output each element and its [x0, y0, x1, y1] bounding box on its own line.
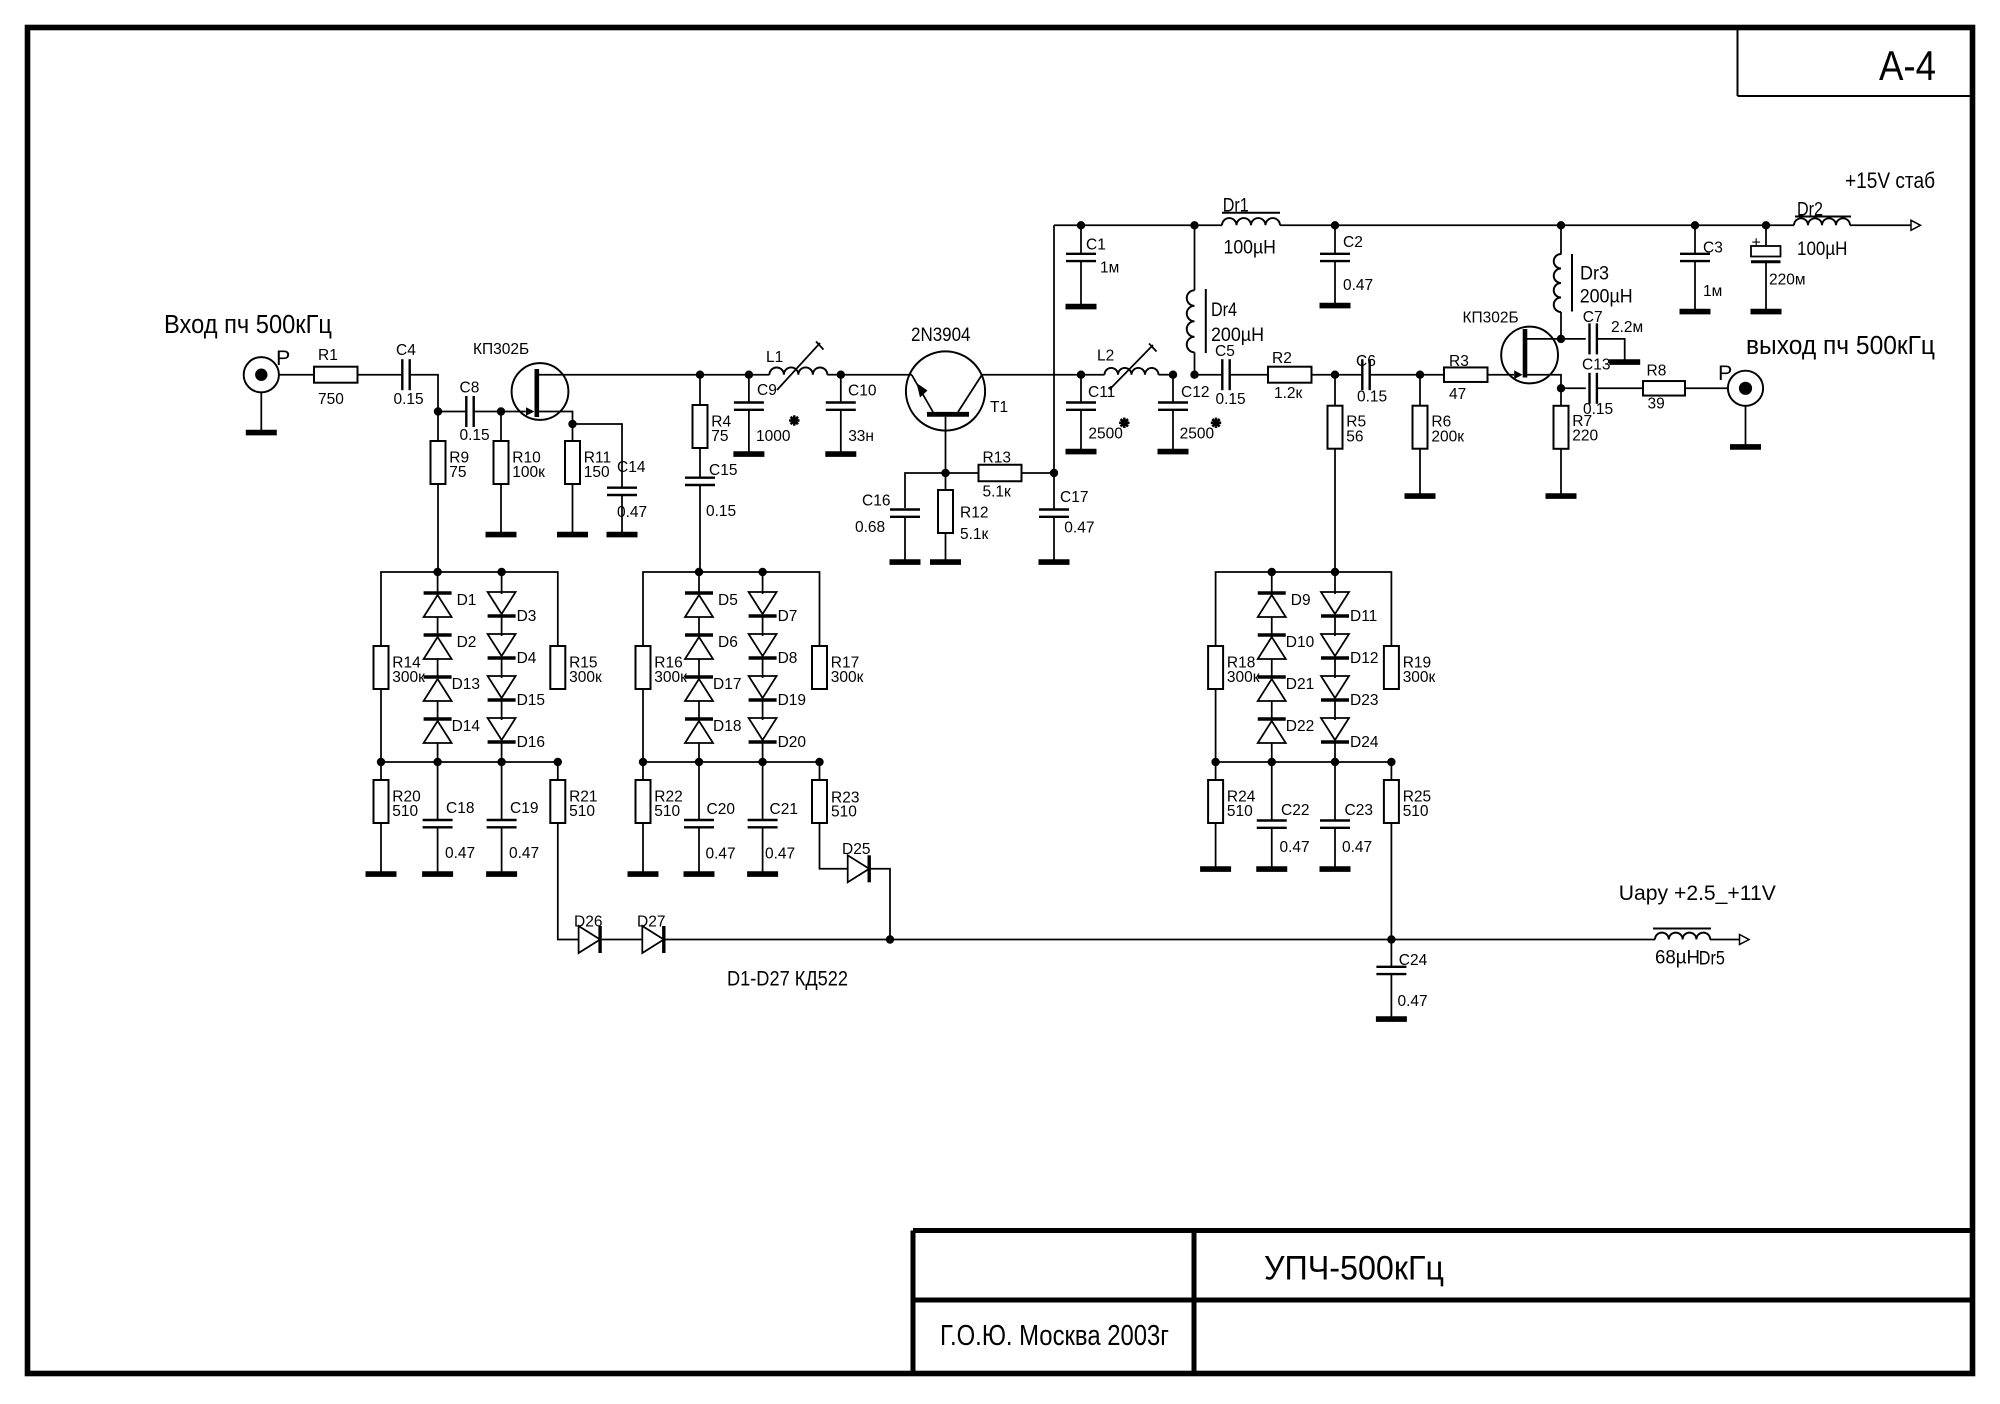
- node rail1b C19 junction: [497, 758, 505, 766]
- ground C9: [733, 410, 764, 454]
- svg-text:100µH: 100µH: [1797, 238, 1847, 260]
- wire drain node to C7: [1561, 338, 1586, 340]
- node C1 junction: [1077, 221, 1085, 229]
- svg-text:0.47: 0.47: [1343, 277, 1373, 294]
- wire bottom rail 1: [381, 761, 558, 763]
- node rail1 D1 junction: [433, 568, 441, 576]
- wire source node to R11: [572, 424, 574, 441]
- svg-text:300к: 300к: [654, 669, 687, 686]
- wire R14 to bottom rail 1: [380, 689, 382, 762]
- ground R10: [486, 484, 517, 535]
- ground C2: [1320, 261, 1351, 306]
- svg-text:C10: C10: [848, 383, 877, 400]
- node Dr3 top junction: [1557, 221, 1565, 229]
- svg-text:C22: C22: [1281, 802, 1309, 819]
- ground R24: [1200, 823, 1231, 869]
- capacitor C22: [1257, 762, 1310, 856]
- svg-text:P: P: [1718, 361, 1732, 385]
- wire C4 to node A / down to C8 row: [410, 375, 438, 412]
- op-amp U2 JFET KP302B output stage: [1463, 310, 1559, 384]
- svg-text:D24: D24: [1350, 734, 1379, 751]
- svg-text:Dr5: Dr5: [1699, 949, 1725, 970]
- svg-text:0.47: 0.47: [445, 845, 475, 862]
- svg-text:+15V стаб: +15V стаб: [1845, 168, 1935, 193]
- ground C19: [486, 827, 517, 874]
- resistor R18: [1208, 646, 1260, 689]
- svg-text:2500: 2500: [1088, 425, 1123, 442]
- node rail3 D9 junction: [1268, 568, 1276, 576]
- op-amp U1 JFET KP302B input stage: [473, 341, 568, 420]
- svg-text:D27: D27: [637, 914, 665, 931]
- node drain U2 junction: [1557, 335, 1565, 343]
- node AGC D25 junction: [886, 935, 894, 943]
- node rail3b R25 junction: [1387, 758, 1395, 766]
- wire C6 to R6 node: [1370, 374, 1420, 376]
- wire D18 to bottom rail 2: [698, 743, 700, 762]
- wire R5 to diode rail 3: [1334, 449, 1336, 572]
- wire base node to C16: [905, 473, 946, 508]
- svg-text:Г.О.Ю. Москва 2003г: Г.О.Ю. Москва 2003г: [940, 1320, 1169, 1352]
- svg-text:0.15: 0.15: [394, 391, 424, 408]
- capacitor C7: [1583, 309, 1643, 354]
- node rail2b R22 junction: [639, 758, 647, 766]
- svg-text:C23: C23: [1345, 802, 1373, 819]
- wire AGC junction to C24 node: [890, 939, 1391, 941]
- capacitor C15: [685, 448, 737, 520]
- inductor L2 variable: [1097, 344, 1159, 390]
- diode D15: [488, 658, 545, 709]
- svg-text:1м: 1м: [1100, 260, 1119, 277]
- wire R23 to D25: [820, 823, 848, 869]
- node rail2 D5 junction: [695, 568, 703, 576]
- wire C24 node to Dr5: [1391, 939, 1655, 941]
- wire connector to R1: [279, 374, 314, 376]
- node source U2 junction: [1557, 384, 1565, 392]
- node C11 junction: [1077, 371, 1085, 379]
- svg-text:D5: D5: [718, 592, 738, 609]
- wire D20 to bottom rail 2: [762, 742, 764, 762]
- svg-text:75: 75: [449, 464, 466, 481]
- svg-text:1.2к: 1.2к: [1274, 385, 1303, 402]
- wire diode rail 3 top: [1216, 572, 1392, 646]
- resistor R5: [1328, 375, 1367, 449]
- ground C7: [1597, 339, 1640, 362]
- svg-text:510: 510: [392, 803, 418, 820]
- diode D20: [749, 700, 807, 751]
- node R4 junction: [696, 371, 704, 379]
- svg-text:47: 47: [1449, 386, 1466, 403]
- arrow +15V output: [1911, 220, 1921, 230]
- wire Dr5 to Uapy arrow: [1710, 939, 1740, 941]
- node rail2b C20 junction: [695, 758, 703, 766]
- capacitor C14: [607, 459, 647, 521]
- svg-text:39: 39: [1648, 396, 1665, 413]
- ground C20: [684, 827, 715, 874]
- wire U1 drain to R4 node: [538, 374, 700, 376]
- svg-text:C9: C9: [757, 382, 777, 399]
- node rail3 R5 junction: [1331, 568, 1339, 576]
- svg-text:0.47: 0.47: [509, 845, 539, 862]
- svg-text:L1: L1: [766, 349, 783, 366]
- capacitor C2: [1320, 225, 1373, 294]
- wire diode rail 1 top: [381, 572, 558, 646]
- wire C10 node to T1 emitter: [841, 374, 912, 376]
- node rail1b C18 junction: [433, 758, 441, 766]
- ground C14: [607, 495, 638, 535]
- node rail1b R20 junction: [377, 758, 385, 766]
- capacitor C18: [423, 762, 476, 862]
- inductor Dr2 100uH: [1794, 200, 1851, 261]
- diode D1: [424, 572, 477, 617]
- svg-text:D17: D17: [713, 676, 741, 693]
- svg-text:P: P: [276, 346, 290, 370]
- svg-text:Dr2: Dr2: [1797, 200, 1823, 221]
- wire T1 collector to L2: [982, 374, 1105, 376]
- ground C12: [1158, 410, 1189, 452]
- ground C18: [422, 827, 453, 874]
- svg-text:Dr4: Dr4: [1211, 300, 1237, 321]
- svg-text:0.47: 0.47: [1064, 519, 1094, 536]
- wire D14 to bottom rail 1: [437, 743, 439, 762]
- node A junction: [434, 407, 442, 415]
- title block: [913, 1231, 1970, 1373]
- svg-text:D7: D7: [778, 608, 798, 625]
- wire power drop to C17 node: [1053, 225, 1055, 473]
- resistor R12: [938, 473, 989, 543]
- svg-text:D8: D8: [778, 650, 798, 667]
- resistor R20: [374, 762, 422, 823]
- svg-text:Uapy +2.5_+11V: Uapy +2.5_+11V: [1619, 882, 1776, 905]
- wire node A to C8: [438, 411, 466, 413]
- diode D6: [685, 617, 738, 659]
- node R5 junction: [1331, 371, 1339, 379]
- node rail2b C21 junction: [758, 758, 766, 766]
- svg-text:56: 56: [1346, 429, 1363, 446]
- resistor R17: [812, 646, 864, 689]
- resistor R23: [812, 762, 859, 823]
- svg-text:L2: L2: [1097, 348, 1114, 365]
- node rail2 D7 junction: [758, 568, 766, 576]
- ground 220m: [1751, 263, 1782, 312]
- node rail1 D3 junction: [497, 568, 505, 576]
- resistor R8: [1643, 363, 1685, 413]
- capacitor C12: [1158, 375, 1221, 443]
- svg-text:C21: C21: [770, 801, 798, 818]
- svg-text:D9: D9: [1291, 592, 1311, 609]
- node rail3b R24 junction: [1211, 758, 1219, 766]
- resistor R4: [693, 375, 732, 448]
- svg-text:D14: D14: [452, 718, 481, 735]
- ground R11: [557, 484, 588, 535]
- ground C11: [1066, 410, 1097, 452]
- diode D17: [685, 659, 741, 701]
- resistor R6: [1413, 375, 1465, 449]
- resistor R10: [494, 412, 546, 485]
- svg-text:C4: C4: [396, 342, 416, 359]
- capacitor C21: [748, 762, 798, 863]
- ground C17: [1039, 517, 1070, 562]
- resistor R16: [636, 646, 688, 689]
- capacitor C20: [684, 762, 736, 863]
- wire +15V power rail: [1054, 224, 1222, 226]
- inductor Dr1 100uH: [1222, 195, 1280, 258]
- resistor R9: [431, 412, 470, 485]
- diode D19: [749, 658, 806, 709]
- svg-text:D13: D13: [452, 676, 480, 693]
- node rail3b C23 junction: [1331, 758, 1339, 766]
- svg-text:C16: C16: [862, 493, 890, 510]
- diode D25: [842, 841, 870, 882]
- capacitor C11: [1066, 375, 1130, 443]
- wire R25 to AGC node: [1390, 823, 1392, 940]
- svg-text:D18: D18: [713, 718, 741, 735]
- svg-text:510: 510: [831, 804, 857, 821]
- wire base node to R13: [946, 472, 979, 474]
- svg-text:Dr3: Dr3: [1580, 264, 1609, 285]
- svg-text:0.47: 0.47: [706, 846, 736, 863]
- capacitor C19: [487, 762, 540, 862]
- wire R8 to output connector: [1685, 387, 1728, 389]
- svg-text:Dr1: Dr1: [1223, 195, 1249, 216]
- wire source node to C14: [573, 424, 623, 488]
- transistor T1 2N3904: [906, 325, 1008, 431]
- resistor R22: [636, 762, 683, 823]
- svg-text:А-4: А-4: [1879, 42, 1936, 89]
- diode D2: [424, 617, 477, 659]
- resistor R11: [565, 441, 611, 484]
- svg-text:75: 75: [711, 428, 728, 445]
- svg-text:1м: 1м: [1703, 283, 1722, 300]
- svg-text:C20: C20: [707, 801, 736, 818]
- svg-text:D19: D19: [778, 692, 806, 709]
- svg-text:выход пч 500кГц: выход пч 500кГц: [1746, 332, 1935, 360]
- svg-text:D26: D26: [574, 914, 602, 931]
- connector P input: [244, 346, 291, 392]
- inductor Dr5 68uH: [1653, 929, 1725, 970]
- svg-text:300к: 300к: [831, 669, 864, 686]
- wire R9 to diode rail 1: [437, 484, 439, 572]
- diode D8: [749, 616, 798, 667]
- ground C10: [825, 410, 856, 454]
- diode D23: [1321, 658, 1378, 709]
- svg-text:D25: D25: [842, 841, 870, 858]
- svg-text:R8: R8: [1647, 363, 1667, 380]
- svg-text:510: 510: [654, 803, 680, 820]
- capacitor C3: [1680, 225, 1723, 300]
- svg-text:220: 220: [1572, 428, 1598, 445]
- svg-text:C1: C1: [1086, 237, 1106, 254]
- svg-text:200µH: 200µH: [1580, 286, 1633, 308]
- wire bottom rail 3: [1216, 761, 1392, 763]
- diode D22: [1258, 701, 1314, 743]
- node C12 junction: [1169, 371, 1177, 379]
- wire U1 source: [539, 412, 573, 425]
- node rail2b R23 junction: [815, 758, 823, 766]
- diode D10: [1258, 617, 1315, 659]
- svg-text:0.15: 0.15: [1583, 401, 1613, 418]
- capacitor electrolytic 220m: [1751, 225, 1806, 288]
- svg-text:D1-D27 КД522: D1-D27 КД522: [727, 967, 848, 991]
- diode D21: [1258, 659, 1314, 701]
- node C220m junction: [1762, 221, 1770, 229]
- wire D25 to AGC node: [871, 869, 890, 940]
- svg-text:R3: R3: [1449, 353, 1469, 370]
- node base T1 junction: [941, 469, 949, 477]
- wire C13 to R8: [1597, 387, 1643, 389]
- wire D26 to D27: [602, 939, 643, 941]
- wire Dr1 to Dr2: [1280, 224, 1794, 226]
- ground R12: [930, 533, 961, 562]
- ground C1: [1066, 261, 1097, 307]
- svg-text:D2: D2: [457, 634, 477, 651]
- svg-text:510: 510: [1227, 803, 1253, 820]
- svg-text:D23: D23: [1350, 692, 1378, 709]
- ground R22: [628, 823, 659, 874]
- format box A-4: [1738, 30, 1971, 96]
- svg-text:КП302Б: КП302Б: [1463, 310, 1519, 327]
- ground C23: [1320, 828, 1351, 869]
- wire T1 base down: [945, 417, 947, 473]
- svg-text:C12: C12: [1181, 384, 1209, 401]
- svg-text:D15: D15: [517, 692, 545, 709]
- wire R6 node to R3: [1420, 374, 1444, 376]
- capacitor C16: [855, 493, 920, 537]
- svg-text:510: 510: [569, 803, 595, 820]
- svg-text:200к: 200к: [1431, 429, 1464, 446]
- svg-text:D11: D11: [1350, 608, 1377, 625]
- capacitor C4: [394, 342, 424, 408]
- wire R5 node to C6: [1335, 374, 1362, 376]
- svg-text:C8: C8: [460, 380, 480, 397]
- wire D24 to bottom rail 3: [1334, 742, 1336, 762]
- svg-text:D22: D22: [1286, 718, 1314, 735]
- wire Dr4 node to C5: [1195, 374, 1223, 376]
- wire R1 to C4: [358, 374, 403, 376]
- diode D18: [685, 701, 741, 743]
- diode D27: [637, 914, 665, 954]
- wire Dr4 to signal node: [1194, 352, 1196, 374]
- svg-text:150: 150: [584, 464, 610, 481]
- wire gate node to JFET U1 gate: [501, 411, 526, 413]
- wire U2 source: [1527, 375, 1561, 389]
- svg-text:R13: R13: [983, 450, 1011, 467]
- svg-text:33н: 33н: [848, 428, 874, 445]
- wire R3 to U2 gate: [1488, 374, 1515, 376]
- connector P output: [1718, 361, 1763, 406]
- svg-text:C18: C18: [446, 800, 474, 817]
- svg-text:C13: C13: [1582, 357, 1610, 374]
- node Dr4 bottom junction: [1190, 371, 1198, 379]
- svg-text:750: 750: [318, 391, 344, 408]
- wire R21 to AGC line: [558, 823, 579, 940]
- capacitor C10: [826, 375, 877, 446]
- diode D26: [574, 914, 602, 954]
- svg-text:5.1к: 5.1к: [960, 526, 989, 543]
- diode D5: [685, 572, 738, 617]
- capacitor C9: [734, 375, 800, 446]
- node source U1 junction: [568, 420, 576, 428]
- svg-text:D6: D6: [718, 634, 738, 651]
- inductor Dr3 200uH: [1554, 225, 1633, 312]
- svg-text:2N3904: 2N3904: [911, 325, 971, 346]
- svg-text:D4: D4: [517, 650, 537, 667]
- ground C22: [1256, 828, 1287, 869]
- svg-text:2500: 2500: [1180, 425, 1215, 442]
- resistor R1: [314, 347, 358, 408]
- svg-text:C6: C6: [1356, 353, 1376, 370]
- node AGC C24 junction: [1387, 935, 1395, 943]
- capacitor C13: [1582, 357, 1613, 419]
- ground C3: [1680, 261, 1711, 312]
- svg-text:300к: 300к: [1403, 669, 1436, 686]
- svg-text:68µH: 68µH: [1655, 946, 1700, 968]
- svg-text:0.15: 0.15: [460, 427, 490, 444]
- resistor R2: [1268, 350, 1312, 402]
- svg-text:0.15: 0.15: [1357, 389, 1387, 406]
- svg-text:2.2м: 2.2м: [1611, 319, 1643, 336]
- svg-text:300к: 300к: [1227, 669, 1260, 686]
- svg-text:+: +: [1752, 234, 1761, 251]
- svg-text:D16: D16: [517, 734, 545, 751]
- svg-text:0.68: 0.68: [855, 519, 885, 536]
- wire R16 to bottom rail 2: [642, 689, 644, 762]
- wire L1 to C10 node: [827, 374, 841, 376]
- svg-text:C3: C3: [1703, 240, 1723, 257]
- wire L2 to C12 node: [1159, 374, 1174, 376]
- capacitor C17: [1039, 473, 1094, 536]
- wire diode rail 2 top: [643, 572, 820, 646]
- wire bottom rail 2: [643, 761, 820, 763]
- svg-text:5.1к: 5.1к: [983, 483, 1012, 500]
- svg-text:100к: 100к: [512, 464, 545, 481]
- diode D13: [424, 659, 480, 701]
- svg-text:C14: C14: [617, 459, 646, 476]
- svg-text:R1: R1: [318, 347, 338, 364]
- wire D22 to bottom rail 3: [1271, 743, 1273, 762]
- wire C15 to diode rail 2: [699, 485, 701, 572]
- ground R7: [1546, 449, 1577, 496]
- svg-text:1000: 1000: [756, 428, 791, 445]
- ground C16: [890, 517, 921, 562]
- capacitor C6: [1356, 353, 1387, 406]
- svg-text:510: 510: [1403, 803, 1429, 820]
- svg-text:0.47: 0.47: [1280, 839, 1310, 856]
- resistor R14: [374, 646, 426, 689]
- svg-text:C7: C7: [1583, 309, 1603, 326]
- node R6 junction: [1416, 371, 1424, 379]
- capacitor C5: [1215, 343, 1246, 408]
- diode D12: [1321, 616, 1378, 667]
- inductor L1 variable: [749, 342, 827, 391]
- svg-text:C19: C19: [510, 800, 538, 817]
- resistor R25: [1384, 762, 1431, 823]
- node Dr4 top junction: [1190, 221, 1198, 229]
- wire Dr3 to drain node: [1560, 312, 1562, 339]
- diode D24: [1321, 700, 1379, 751]
- svg-text:D12: D12: [1350, 650, 1378, 667]
- resistor R3: [1444, 353, 1488, 403]
- wire D16 to bottom rail 1: [501, 742, 503, 762]
- capacitor C1: [1066, 225, 1119, 276]
- wire R18 to bottom rail 3: [1215, 689, 1217, 762]
- inductor Dr4 200uH: [1187, 225, 1264, 353]
- svg-text:C24: C24: [1399, 952, 1428, 969]
- diode D7: [749, 572, 798, 625]
- resistor R21: [550, 762, 597, 823]
- node C17 junction: [1050, 469, 1058, 477]
- svg-text:КП302Б: КП302Б: [473, 341, 529, 358]
- diode D4: [488, 616, 537, 667]
